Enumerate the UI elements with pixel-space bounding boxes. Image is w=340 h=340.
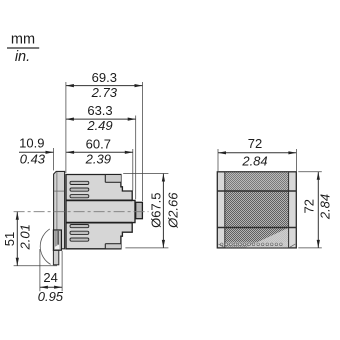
side view body silhouette	[66, 175, 135, 249]
svg-text:Ø67.5: Ø67.5	[148, 192, 163, 227]
dimension front 72 / 2.84 top	[218, 136, 296, 171]
svg-text:2.73: 2.73	[91, 85, 118, 100]
svg-text:51: 51	[2, 232, 17, 246]
body top notch	[105, 175, 121, 183]
dimension 69.3 / 2.73	[66, 70, 143, 201]
connector nub	[136, 202, 143, 218]
svg-text:24: 24	[43, 270, 57, 285]
svg-text:2.01: 2.01	[18, 224, 33, 250]
dimension front 72 / 2.84 right	[298, 172, 332, 248]
svg-text:2.84: 2.84	[241, 154, 267, 169]
panel cutout arc	[40, 229, 50, 265]
front view texture	[225, 172, 289, 247]
bottom vent slots	[70, 225, 89, 242]
svg-text:69.3: 69.3	[92, 70, 117, 85]
dimension 60.7 / 2.39	[66, 136, 133, 190]
front view outer housing	[217, 172, 296, 248]
svg-text:in.: in.	[15, 49, 30, 65]
body bottom notch	[105, 244, 121, 249]
svg-text:60.7: 60.7	[86, 136, 111, 151]
front view division lines	[217, 191, 296, 228]
svg-text:2.84: 2.84	[318, 194, 333, 220]
svg-text:2.49: 2.49	[86, 118, 112, 133]
legend mm/in	[7, 32, 39, 66]
svg-text:10.9: 10.9	[19, 136, 44, 151]
clamp strip below flange	[53, 250, 58, 264]
side view flange (bezel)	[54, 171, 65, 248]
svg-text:63.3: 63.3	[87, 103, 112, 118]
svg-text:0.95: 0.95	[38, 289, 64, 304]
terminal bar	[66, 200, 132, 222]
dimension diameter 67.5 / 2.66	[123, 174, 180, 248]
top vent slots	[70, 181, 89, 198]
svg-text:Ø2.66: Ø2.66	[166, 192, 181, 229]
dimension 10.9 / 0.43	[19, 136, 54, 171]
centerline	[14, 211, 149, 213]
svg-text:mm: mm	[11, 32, 35, 48]
mounting clip	[53, 230, 61, 250]
front view reflection	[246, 228, 289, 248]
front view bottom vent holes	[221, 243, 283, 246]
front view strip edges	[225, 172, 289, 247]
dimension 24 / 0.95	[38, 249, 64, 304]
dimension 63.3 / 2.49	[66, 103, 136, 199]
svg-text:72: 72	[248, 136, 262, 151]
front view top zone lighter	[225, 172, 289, 190]
svg-text:72: 72	[301, 199, 316, 213]
svg-text:0.43: 0.43	[20, 152, 46, 167]
front view corner chamfers	[218, 244, 295, 247]
dimension 51 / 2.01	[2, 212, 57, 266]
svg-text:2.39: 2.39	[85, 152, 111, 167]
